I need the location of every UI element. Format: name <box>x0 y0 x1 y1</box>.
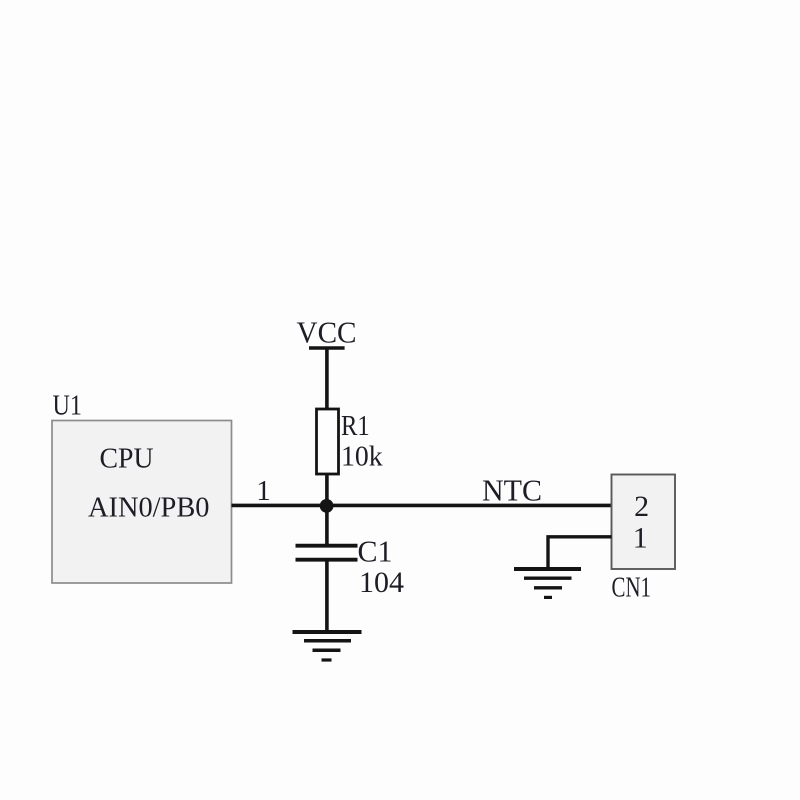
svg-text:CN1: CN1 <box>612 573 652 604</box>
svg-text:VCC: VCC <box>297 315 357 350</box>
svg-text:CPU: CPU <box>100 442 154 474</box>
IC U1 body <box>52 421 232 584</box>
resistor R1 body <box>317 409 339 474</box>
ground (below C1) <box>293 632 362 660</box>
svg-text:AIN0/PB0: AIN0/PB0 <box>88 491 210 523</box>
wire R1 to node <box>325 474 329 506</box>
svg-text:R1: R1 <box>341 410 370 442</box>
svg-text:104: 104 <box>359 566 404 599</box>
svg-text:10k: 10k <box>341 440 383 472</box>
wire VCC to R1 <box>325 348 329 410</box>
wire node to C1 <box>325 505 329 545</box>
ground (below CN1) <box>514 569 581 597</box>
svg-text:U1: U1 <box>53 390 83 422</box>
wire U1 pin 1 to node <box>232 504 328 508</box>
svg-text:2: 2 <box>634 490 649 523</box>
wire CN1 pin 1 to ground <box>548 537 612 568</box>
connector CN1 body <box>612 475 676 570</box>
wire C1 to ground <box>325 560 329 632</box>
svg-text:1: 1 <box>256 475 271 507</box>
power symbol VCC bar <box>309 346 345 350</box>
svg-text:NTC: NTC <box>482 473 542 508</box>
svg-text:1: 1 <box>633 521 648 554</box>
capacitor C1 plates <box>296 546 358 560</box>
svg-text:C1: C1 <box>358 534 393 569</box>
junction node <box>320 499 334 513</box>
wire node to CN1 pin 2 <box>327 504 612 508</box>
